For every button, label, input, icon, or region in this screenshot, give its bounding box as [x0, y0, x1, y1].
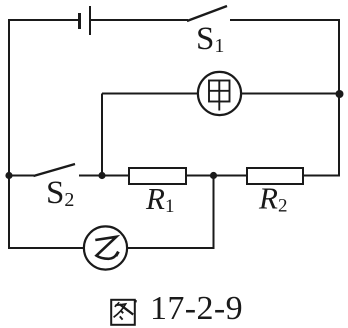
wire 甲 branch left [102, 93, 198, 95]
wire 甲 branch right [241, 93, 339, 95]
junction node B (between R1 and R2) [210, 172, 217, 179]
wire S2 right stub [79, 175, 129, 177]
wire right vertical [338, 19, 340, 176]
resistor R2 body [247, 168, 303, 184]
ammeter 甲 circle [198, 72, 241, 115]
wire inner vertical from 甲 down to node [101, 94, 103, 176]
switch S1 blade [187, 6, 227, 21]
junction left vertical and S2 [5, 172, 12, 179]
meter label 乙 glyph [95, 237, 117, 259]
wire top-left horizontal [9, 19, 79, 21]
wire battery to switch S1 [90, 19, 188, 21]
meter label 甲 glyph [209, 81, 230, 111]
battery B1 short thick plate [78, 13, 81, 29]
switch S2 blade [34, 164, 76, 176]
wire left vertical [8, 19, 10, 249]
wire R1 to node B [186, 175, 247, 177]
wire bottom left [9, 247, 84, 249]
junction right vertical and 甲 branch [336, 90, 344, 98]
wire bottom right [127, 247, 215, 249]
wire R2 to right vertical [303, 175, 340, 177]
battery B1 long thin plate [89, 6, 91, 35]
resistor R1 body [129, 168, 186, 184]
wire S1 right contact to top-right corner [230, 19, 339, 21]
wire middle vertical node B down to bottom loop [213, 176, 215, 250]
wire S2 left stub [9, 175, 34, 177]
junction node A (inner vertical meets row) [98, 172, 105, 179]
svg-text:17-2-9: 17-2-9 [150, 290, 243, 327]
caption 图 glyph [111, 300, 135, 325]
voltmeter 乙 circle [84, 226, 127, 269]
